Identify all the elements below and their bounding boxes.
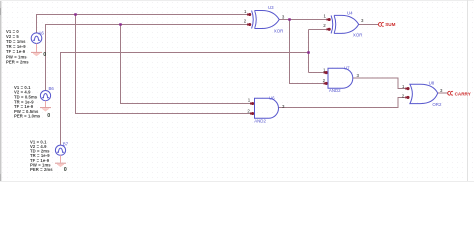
svg-text:PER = 2ms: PER = 2ms xyxy=(30,167,53,172)
svg-text:XOR: XOR xyxy=(274,28,284,33)
svg-text:0: 0 xyxy=(47,113,50,119)
AND gate U6 xyxy=(247,96,285,124)
pulse voltage source A6 xyxy=(31,31,44,44)
ground (net 0) below B7 xyxy=(55,155,67,173)
svg-text:CARRY: CARRY xyxy=(455,91,471,96)
svg-text:XOR: XOR xyxy=(353,33,363,38)
XOR gate U3 xyxy=(244,5,285,33)
junction node XOR1 out xyxy=(288,18,291,21)
XOR gate U4 xyxy=(323,11,364,38)
pulse voltage source B6 xyxy=(40,86,54,101)
wire U4 output to SUM port xyxy=(359,23,379,25)
pin arrow U3.2 xyxy=(248,23,251,26)
pin arrow U3.1 xyxy=(248,13,251,16)
off-page connector / node SUM xyxy=(378,22,395,27)
pin arrow U4.2 xyxy=(328,28,331,31)
ground (net 0) below B6 xyxy=(40,101,51,119)
svg-text:AND2: AND2 xyxy=(329,88,341,93)
off-page connector / node CARRY xyxy=(448,91,471,96)
wire net Cin: source B7 up and right to vertical riser xyxy=(61,53,309,146)
page border right xyxy=(467,0,468,182)
window edge left xyxy=(0,0,1,182)
wire net B: source B6 up and right to U3 pin2 xyxy=(46,25,248,91)
svg-text:AND2: AND2 xyxy=(254,118,266,123)
svg-text:B6: B6 xyxy=(49,86,55,91)
svg-text:A6: A6 xyxy=(39,31,45,36)
wire Cin to U7 pin1 xyxy=(309,72,325,74)
svg-text:U7: U7 xyxy=(344,65,350,70)
AND gate U7 xyxy=(323,65,360,93)
svg-text:PER = 2ms: PER = 2ms xyxy=(6,59,29,64)
wire Cin to U4 pin2 xyxy=(309,28,328,30)
window edge top xyxy=(0,0,474,1)
svg-text:SUM: SUM xyxy=(385,22,395,27)
svg-text:OR2: OR2 xyxy=(432,102,442,107)
junction node Cin xyxy=(307,51,310,54)
svg-text:U3: U3 xyxy=(268,5,274,10)
wire U7 output to U8 pin1 xyxy=(353,78,407,88)
wire U8 output to CARRY port xyxy=(438,92,448,94)
value label: A6 pulse parameters xyxy=(6,29,29,65)
background dot grid xyxy=(0,0,474,182)
value label: B6 pulse parameters xyxy=(14,85,41,119)
pin arrow U8.1 xyxy=(406,87,409,90)
pin arrow U4.1 xyxy=(328,18,331,21)
window edge bottom xyxy=(0,181,474,182)
wire net A branch: down from junction to U6 pin2 xyxy=(76,15,251,114)
wire U3 output to U4 pin1 xyxy=(279,19,327,21)
pin arrow U6.1 xyxy=(251,102,254,105)
svg-text:PER = 1.0ms: PER = 1.0ms xyxy=(14,114,41,119)
wire net A: source A6 up and right to U3 pin1 xyxy=(37,15,248,34)
svg-text:0: 0 xyxy=(64,167,67,173)
pin arrow U7.1 xyxy=(325,71,328,74)
pin arrow U8.2 xyxy=(406,96,409,99)
wire U3 output branch down to U7 pin2 xyxy=(290,20,325,84)
wire net B branch: down from junction to U6 pin1 xyxy=(121,25,251,104)
pin arrow U7.2 xyxy=(325,82,328,85)
wire U6 output to U8 pin2 xyxy=(278,97,406,107)
pulse voltage source B7 xyxy=(55,141,68,155)
svg-text:B7: B7 xyxy=(63,141,69,146)
svg-text:U4: U4 xyxy=(347,11,353,16)
svg-text:0: 0 xyxy=(43,52,46,58)
svg-text:U8: U8 xyxy=(429,81,435,86)
junction node A xyxy=(74,13,77,16)
junction node B xyxy=(119,23,122,26)
value label: B7 pulse parameters xyxy=(30,139,53,172)
pin arrow U6.2 xyxy=(251,112,254,115)
wire net Cin riser: up to U4 pin2, down to U7 pin1 xyxy=(308,29,310,72)
OR gate U8 xyxy=(402,81,443,107)
ground (net 0) below A6 xyxy=(31,44,46,59)
svg-text:U6: U6 xyxy=(269,96,275,101)
